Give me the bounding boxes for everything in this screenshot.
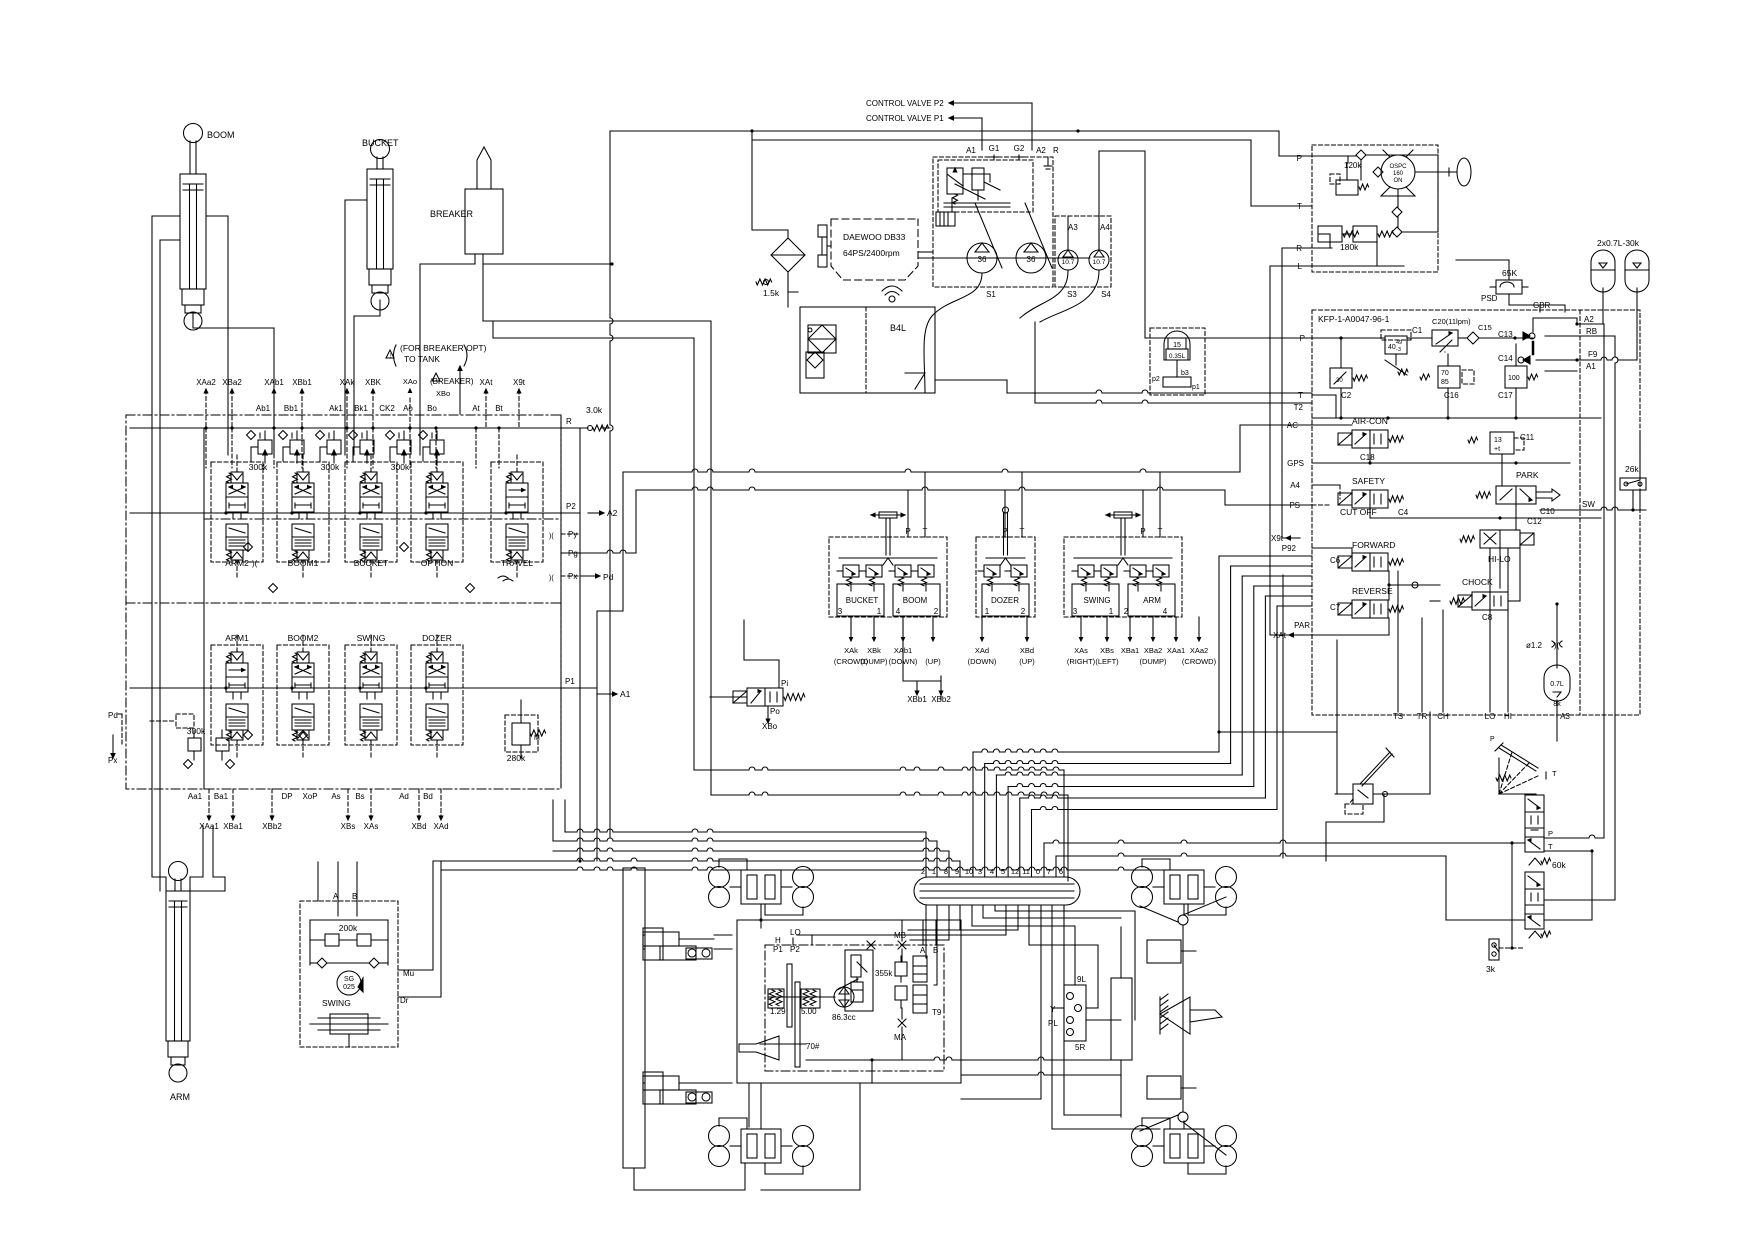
svg-text:DAEWOO DB33: DAEWOO DB33 [843,232,906,242]
wire hand pump out [1373,793,1414,795]
svg-text:XAd: XAd [975,646,989,655]
svg-text:Po: Po [770,707,780,716]
wire right vertical 1283 [1282,575,1284,858]
svg-text:P: P [1300,334,1305,343]
OSPC internal bottom [1381,187,1415,196]
svg-text:(RIGHT): (RIGHT) [1067,657,1096,666]
svg-text:CK2: CK2 [379,404,395,413]
svg-text:A3: A3 [1068,223,1078,232]
A2 arrow [588,512,600,514]
axle rear-left [709,1126,730,1147]
PARK valve C10 [1496,486,1536,504]
svg-text:A3: A3 [1560,712,1570,721]
valve 65K [1496,280,1522,294]
svg-text:XBb1: XBb1 [292,378,312,387]
wire RB [1545,335,1615,337]
pilot output XAb1 [902,617,904,637]
svg-text:4: 4 [896,607,901,616]
pilot dashed line [372,428,374,468]
wire C14 right F9 [1536,357,1637,360]
wire y732 stub [1217,730,1220,733]
svg-text:A4: A4 [1100,223,1110,232]
pilot dashed line [498,428,500,468]
wire brake P right [1544,835,1604,838]
relief valve 300k #3 [327,440,341,454]
relief 300k lower-left #2 [216,738,229,751]
svg-text:5.00: 5.00 [801,1007,817,1016]
left pilot box dash [176,714,194,728]
relief valve 300k #6 [430,440,444,454]
manual pump dashed [1345,804,1363,814]
regulator linkage [955,184,985,199]
bottom long wires [643,934,645,936]
svg-text:CHOCK: CHOCK [1462,577,1493,587]
regulator lever [944,202,1010,204]
svg-text:200k: 200k [339,923,358,933]
svg-text:XAb1: XAb1 [894,646,912,655]
wire P1 bus [130,687,580,689]
tank breather [889,296,895,302]
pilot port XBa2 [231,390,233,428]
svg-text:C18: C18 [1360,453,1375,462]
wire C13 up [1533,318,1603,332]
wire C16 C17 [1447,354,1449,366]
wire hand pump feed vertical [1336,640,1338,794]
wire block dashdot right [560,415,562,789]
pump 2 36cc [1016,243,1046,273]
svg-text:86.3cc: 86.3cc [832,1013,856,1022]
tank filter small [807,352,823,368]
svg-text:Bt: Bt [495,404,503,413]
LO wire [797,934,940,936]
pilot output XBa2 [1152,617,1154,637]
svg-text:P: P [905,527,910,536]
svg-text:SWING: SWING [322,998,351,1008]
svg-text:XAt: XAt [480,378,494,387]
wire TS [1397,571,1399,712]
svg-text:2x0.7L-30k: 2x0.7L-30k [1597,238,1640,248]
svg-text:70: 70 [1441,370,1449,377]
wire RB down vertical [1615,336,1618,900]
svg-text:300k: 300k [249,462,268,472]
svg-text:XBb1: XBb1 [907,695,927,704]
svg-text:BOOM2: BOOM2 [288,633,319,643]
wire arm pilot lines [202,826,204,877]
wire filter to tank [787,272,789,307]
svg-text:C6: C6 [1330,556,1341,565]
drain R [1047,157,1049,166]
svg-text:64PS/2400rpm: 64PS/2400rpm [843,248,900,258]
regulator valve 1 [947,168,963,194]
bell crank [1160,997,1190,1034]
T mark [1545,772,1547,779]
pilot port XBK [372,390,374,428]
pilot output XAa2 [1198,617,1200,637]
wire OSPC return [1251,140,1312,206]
svg-text:(FOR BREAKER OPT): (FOR BREAKER OPT) [400,343,487,353]
valve section OPTION [431,472,443,483]
wire pilot supply right [609,832,611,837]
svg-text:Y: Y [1050,1005,1056,1014]
svg-text:GBR: GBR [1533,301,1551,310]
svg-text:SG: SG [344,976,354,983]
svg-text:KFP-1-A0047-96-1: KFP-1-A0047-96-1 [1318,314,1390,324]
svg-text:Px: Px [108,756,117,765]
wire C6-C7 [1388,571,1390,600]
wire R bus [130,427,588,429]
pilot output XAa1 [1175,617,1177,637]
wire P2 bus [130,512,580,514]
svg-text:M: M [534,735,540,742]
svg-text:SW: SW [1582,500,1595,509]
svg-text:Ak1: Ak1 [329,404,343,413]
wire A4 [1312,484,1340,486]
svg-text:B: B [352,892,357,901]
steering arm top [1183,897,1226,915]
svg-text:3: 3 [838,607,843,616]
swing Dr port [398,862,441,997]
wire filter drop [752,131,788,238]
svg-text:X9t: X9t [513,378,526,387]
svg-text:C13: C13 [1498,330,1513,339]
wire staircase 5 [1031,810,1033,878]
svg-text:P2: P2 [790,945,800,954]
pilot arrow XBb2 [271,789,273,816]
remote control valve BUCKET/BOOM [829,537,947,617]
wire C4 link [1369,508,1371,518]
svg-text:SWING: SWING [357,633,386,643]
wire boom head-end to valve [193,313,274,455]
gear pump box [1055,216,1111,287]
svg-text:2: 2 [921,867,925,876]
wire aux3 [1052,905,1160,1129]
svg-text:(DUMP): (DUMP) [860,657,888,666]
pilot dashed line [273,428,275,468]
svg-text:XBs: XBs [1100,646,1114,655]
pilot output (UP) [932,617,934,637]
wire LO to transmission [940,905,1006,935]
accumulator stem 2 [1636,288,1638,360]
70 line [760,1043,806,1045]
svg-text:3k: 3k [1486,964,1496,974]
wire GPS [1312,462,1570,464]
svg-text:R: R [1296,244,1302,253]
axle front-left [709,867,730,888]
valve section ARM2 [231,472,243,483]
steering knuckle bottom circle [1178,1112,1188,1122]
svg-text:1: 1 [877,607,882,616]
pump group dashed box [933,157,1053,287]
Pd arrow [580,575,596,577]
svg-text:0: 0 [1036,867,1040,876]
svg-text:Py: Py [568,530,577,539]
svg-text:9: 9 [955,867,959,876]
svg-text:OPTION: OPTION [421,558,454,568]
svg-text:10.7: 10.7 [1093,259,1106,266]
Px label left [112,735,114,755]
svg-text:G1: G1 [989,144,1000,153]
svg-text:3: 3 [1073,607,1078,616]
pilot arrow XBd [418,789,420,816]
vertical feeders from pilot blocks [902,617,904,676]
HST pump [834,987,854,1007]
svg-text:XBd: XBd [411,822,426,831]
svg-text:Ba1: Ba1 [214,792,229,801]
pilot output XBd [1026,617,1028,637]
pilot output XAs [1080,617,1082,637]
dash-dot divider [126,602,561,604]
hatched wall [1159,997,1161,1034]
svg-text:Pd: Pd [108,711,118,720]
steering column [1448,168,1450,176]
svg-text:XoP: XoP [302,792,317,801]
svg-text:30: 30 [1336,378,1343,384]
svg-text:X9t: X9t [1271,534,1284,543]
bell horn [739,1036,779,1060]
wire AC [1312,424,1352,426]
svg-text:ON: ON [1394,178,1403,184]
pilot arrow XBs [347,789,349,816]
C17 valve [1505,366,1527,388]
gear pump 10.7 #2 [1089,250,1109,270]
svg-text:XBo: XBo [762,722,778,731]
wire KFP P feed [1099,151,1312,338]
AIR-CON valve C18 [1352,430,1388,448]
swing check diamonds [317,958,327,968]
control valve arrows [949,101,954,105]
svg-text:8: 8 [944,867,948,876]
steering knuckle top circle [1178,915,1188,925]
wire staircase 3 [1007,787,1009,878]
wire block-right vertical [579,428,581,861]
svg-text:p2: p2 [1152,376,1160,383]
suction S1 curve [924,273,982,393]
svg-text:8k: 8k [1553,701,1561,708]
wire 472 right end [1240,425,1312,472]
pilot dashed line [301,428,303,468]
wire C7 down [1388,618,1390,635]
C20 valve [1432,330,1458,346]
svg-text:(UP): (UP) [1019,657,1035,666]
relief 300k lower-left #1 [188,738,201,751]
pilot dashed line [231,428,233,468]
svg-text:XBb2: XBb2 [931,695,951,704]
svg-text:025: 025 [343,984,355,991]
pilot port XAk [346,390,348,428]
svg-text:1: 1 [932,867,936,876]
svg-text:CUT OFF: CUT OFF [1340,507,1377,517]
pilot port XAt [485,390,487,428]
wire chock link [1430,600,1440,602]
svg-text:5R: 5R [1075,1043,1085,1052]
svg-text:C12: C12 [1527,517,1542,526]
wire brake P feed [1043,843,1045,877]
svg-text:300k: 300k [321,462,340,472]
trans top wires [792,938,794,945]
svg-text:+t: +t [1494,446,1500,453]
relief valve 300k #4 [360,440,374,454]
svg-text:Ab1: Ab1 [256,404,271,413]
section frame dashed [345,645,397,745]
svg-text:FORWARD: FORWARD [1352,540,1395,550]
breaker note [386,350,394,358]
svg-text:10.7: 10.7 [1062,259,1075,266]
svg-text:MB: MB [894,931,906,940]
section frame dashed [277,462,329,562]
bottom trans line [806,1059,872,1061]
pump 1 36cc [967,243,997,273]
svg-text:70#: 70# [806,1042,820,1051]
wire aux1 [1029,905,1098,1008]
wire nest corner 338 [493,338,694,770]
wire A1 stub [1545,370,1577,372]
spring box 5.00 [801,989,820,1008]
KFP inner dashed divider [1579,310,1581,715]
axle rear-right [1132,1126,1153,1147]
wire boom left 2 [160,240,180,877]
svg-text:Bk1: Bk1 [354,404,368,413]
svg-text:)(: )( [252,559,258,568]
valve section SWING [365,652,377,663]
svg-text:A: A [333,892,339,901]
wire T2 to KFP [1034,322,1036,403]
svg-text:40: 40 [1388,344,1396,351]
swing cross reliefs 200k [325,934,339,946]
bypass 1.5k [764,280,769,285]
svg-text:160: 160 [1393,171,1404,177]
pilot port XAa2 [205,390,207,428]
svg-text:PS: PS [1289,501,1300,510]
svg-text:0.35L: 0.35L [1169,353,1186,360]
servo bar 1 [787,964,792,1027]
regulator small box [936,212,955,226]
svg-text:MA: MA [894,1033,907,1042]
wire swing supply [317,862,319,901]
svg-text:9L: 9L [1077,975,1086,984]
tank outlet line [935,379,1007,381]
svg-text:T: T [1020,527,1025,536]
svg-text:Dr: Dr [400,996,409,1005]
arm cylinder body [166,891,190,1041]
pilot output XBa1 [1129,617,1131,637]
pilot output XBs [1106,617,1108,637]
svg-text:B4L: B4L [890,323,906,333]
wire PS [1312,504,1330,506]
svg-text:13: 13 [1494,437,1502,444]
svg-text:P: P [1297,154,1302,163]
svg-text:120k: 120k [1344,161,1362,170]
svg-text:180k: 180k [1340,242,1359,252]
svg-text:BOOM: BOOM [207,130,235,140]
wire breaker pilot to tank arrow [459,368,461,414]
svg-text:2: 2 [1124,607,1129,616]
wire vertical x610 [610,131,613,832]
port manifold capsule [914,877,1080,905]
boom cylinder body [180,174,206,289]
svg-text:F9: F9 [1588,350,1598,359]
svg-text:A2: A2 [607,508,618,518]
pilot arrow XBa1 [232,789,234,816]
suction S4 curve [1040,271,1099,322]
wire aux2 [961,905,1041,1099]
wire pump to control valve P1 [981,118,983,150]
rear axle second drop [748,1083,750,1127]
pilot arrow XAd [440,789,442,816]
X mark MB [898,941,906,949]
relief 280k [512,723,530,745]
A B wires [922,920,924,945]
trans out line right [872,1057,1121,1060]
trans relief pair 2 [895,986,907,1000]
suction filter [771,238,805,272]
manual pump box [1353,784,1373,804]
C14 check [1523,356,1530,364]
valve section BOOM2 [297,652,309,663]
svg-text:BREAKER: BREAKER [430,209,474,219]
svg-text:15: 15 [1173,342,1181,349]
svg-text:BUCKET: BUCKET [846,596,879,605]
wire transmission to rear [761,1083,860,1190]
wire PSD [1508,260,1510,272]
section frame dashed [491,462,543,562]
accumulator 0.35L box [1150,328,1205,395]
Pd label left [118,713,122,715]
motor inner box [845,950,873,1011]
svg-text:C1: C1 [1412,326,1423,335]
svg-text:3.0k: 3.0k [586,405,603,415]
svg-text:T: T [923,527,928,536]
trans out line 2 [961,1072,1121,1075]
wire A1 down [596,694,598,861]
svg-text:XAa2: XAa2 [1190,646,1208,655]
wire hand pump tank [1326,794,1384,861]
wire 490 right end [1225,490,1312,505]
FORWARD valve C6 [1352,553,1388,571]
svg-text:BOOM1: BOOM1 [288,558,319,568]
pilot label XAo [409,398,411,428]
OSPC port lines [1312,247,1332,249]
pilot arrow XAs [370,789,372,816]
svg-text:3: 3 [978,867,982,876]
accumulator stem 1 [1602,288,1604,324]
svg-text:XAk: XAk [340,378,356,387]
svg-text:Ad: Ad [399,792,409,801]
svg-text:1.29: 1.29 [770,1007,786,1016]
wire nest corner 321 [483,321,711,795]
wire Po left [710,696,747,698]
svg-text:L: L [1298,262,1303,271]
wire A2 down vertical [1603,324,1605,838]
accumulator #1 [1591,250,1615,292]
wire brake T feed [1055,856,1057,877]
svg-text:DOZER: DOZER [422,633,452,643]
dash-dot mid boundary [204,518,561,520]
wire hi-lo down [1489,548,1491,712]
servo shaft [768,996,835,998]
svg-text:XAo: XAo [403,377,417,386]
wire 0.7L stem [1556,712,1558,741]
svg-text:)(: )( [549,575,554,582]
svg-text:XBk: XBk [867,646,881,655]
wire CH [1442,610,1444,712]
svg-text:C4: C4 [1398,508,1409,517]
svg-text:XBa2: XBa2 [1144,646,1162,655]
svg-text:AIR-CON: AIR-CON [1352,416,1388,426]
svg-text:4: 4 [990,867,994,876]
svg-text:C11: C11 [1520,433,1535,442]
svg-text:XBs: XBs [341,822,356,831]
wire bucket rod-end [345,200,367,455]
